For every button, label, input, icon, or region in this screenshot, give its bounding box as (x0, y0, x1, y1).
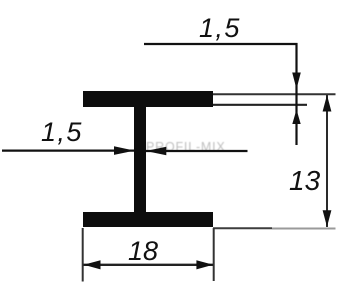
svg-text:1,5: 1,5 (41, 117, 83, 147)
svg-text:18: 18 (128, 236, 158, 266)
svg-text:1,5: 1,5 (199, 13, 241, 43)
svg-text:13: 13 (289, 165, 321, 196)
